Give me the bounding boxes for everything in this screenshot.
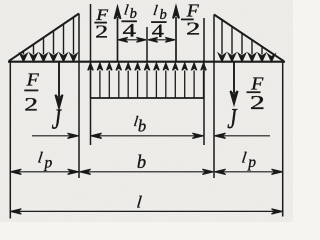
uniform distributed load arrows xyxy=(88,63,206,98)
left triangular load hypotenuse xyxy=(9,14,79,61)
svg-text:J: J xyxy=(227,103,238,135)
right triangular load tall edge xyxy=(213,15,215,179)
svg-text:b: b xyxy=(138,117,146,136)
label F/2 top-right xyxy=(181,1,200,39)
centerline tick xyxy=(146,27,148,62)
label lb/4 left xyxy=(121,3,136,41)
dimension b xyxy=(80,169,213,174)
dimension lb with outward arrows xyxy=(91,133,203,138)
lb/4 dimension left segment xyxy=(118,37,146,42)
left triangular load arrows xyxy=(20,18,77,62)
beam baseline xyxy=(8,61,285,63)
label lb/4 right xyxy=(151,3,167,41)
J force down-arrow right xyxy=(230,62,237,104)
dimension l overall xyxy=(11,209,283,214)
dimension lp right xyxy=(215,169,282,174)
right triangular load arrows xyxy=(219,20,275,61)
right triangular load hypotenuse xyxy=(214,15,284,61)
svg-text:p: p xyxy=(44,154,53,171)
svg-text:4: 4 xyxy=(123,19,137,40)
label lp left xyxy=(37,150,53,172)
dimension row 1: outer leader left with right arrow xyxy=(32,133,78,138)
label F/2 lower-right xyxy=(247,74,265,113)
right support edge line xyxy=(282,61,284,217)
svg-text:p: p xyxy=(247,154,256,171)
svg-text:2: 2 xyxy=(186,20,200,39)
svg-text:2: 2 xyxy=(95,22,108,42)
svg-text:F: F xyxy=(186,1,200,21)
lb/4 dimension right segment xyxy=(148,37,175,42)
uniform load bottom line xyxy=(91,97,205,99)
label F/2 lower-left xyxy=(24,70,39,115)
label lp right xyxy=(241,150,257,171)
J force down-arrow left xyxy=(55,62,62,108)
F/2 reaction up-arrow left xyxy=(114,7,120,61)
svg-text:b: b xyxy=(137,153,146,173)
svg-text:2: 2 xyxy=(250,91,265,114)
label F/2 top-left xyxy=(94,5,108,41)
left load-edge line at lb left xyxy=(90,4,92,145)
dimension lp left xyxy=(11,169,79,174)
right load-edge line at lb right xyxy=(203,18,205,145)
left support edge line xyxy=(9,61,11,219)
svg-text:2: 2 xyxy=(24,94,38,115)
F/2 reaction up-arrow right xyxy=(173,7,179,62)
label lb (dimension) xyxy=(133,114,147,136)
svg-text:J: J xyxy=(52,103,63,135)
svg-text:F: F xyxy=(26,70,40,90)
left triangular load tall edge xyxy=(78,14,80,179)
dimension row 1: outer leader right with left arrow xyxy=(215,133,270,138)
